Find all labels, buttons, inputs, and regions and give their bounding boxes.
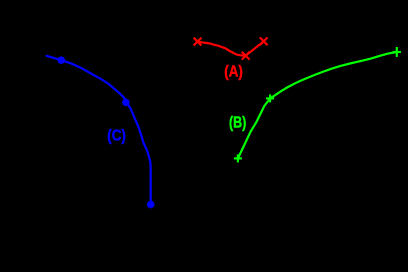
marker A2 (red x) xyxy=(242,52,250,60)
marker C1 (blue asterisk) xyxy=(57,56,65,64)
svg-text:(C): (C) xyxy=(107,128,126,145)
marker B3 (green +) xyxy=(393,47,401,57)
marker C3 (blue asterisk) xyxy=(147,201,155,209)
svg-text:(A): (A) xyxy=(224,64,243,81)
curve C (blue) xyxy=(47,56,151,205)
svg-text:(B): (B) xyxy=(229,114,246,131)
curve B (green) xyxy=(238,52,397,158)
curve A (red) xyxy=(198,41,264,55)
marker A3 (red x) xyxy=(260,37,268,45)
marker B1 (green +) xyxy=(234,154,242,162)
marker B2 (green +) xyxy=(266,94,274,102)
marker C2 (blue asterisk) xyxy=(122,99,130,107)
marker A1 (red x) xyxy=(194,38,202,46)
